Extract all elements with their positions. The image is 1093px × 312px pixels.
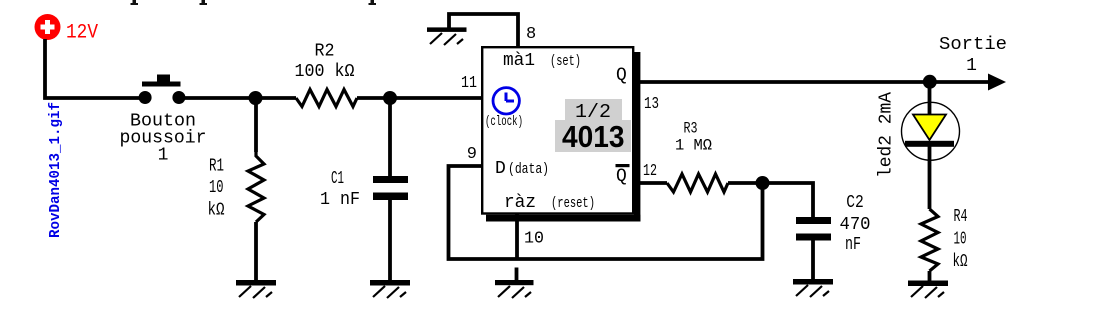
svg-text:Sortie: Sortie (939, 35, 1007, 55)
svg-text:ràz: ràz (504, 193, 536, 213)
cropped text descender 1 (131, 0, 139, 5)
svg-text:12V: 12V (66, 22, 98, 45)
svg-text:C2: C2 (846, 193, 864, 213)
svg-text:led2 2mA: led2 2mA (877, 92, 897, 178)
label C1 1 nF (320, 169, 360, 210)
svg-text:R2: R2 (315, 42, 335, 62)
svg-text:kΩ: kΩ (953, 252, 968, 272)
svg-text:13: 13 (644, 95, 659, 114)
svg-text:1 nF: 1 nF (320, 190, 360, 210)
svg-text:(reset): (reset) (551, 195, 595, 212)
svg-text:1: 1 (966, 56, 977, 76)
ground (pin 10) (495, 268, 534, 299)
svg-text:10: 10 (954, 230, 967, 250)
svg-text:9: 9 (467, 145, 477, 164)
wire Q output (pin 13) (634, 80, 990, 84)
wire pin 12 to R3 (634, 181, 667, 185)
ground (below C1) (370, 280, 410, 298)
ground (below C2) (793, 279, 833, 297)
wire node C to C2 (763, 183, 814, 217)
wire pin 9 (D input) (449, 166, 763, 259)
label R1 10 kΩ (208, 157, 225, 221)
+12V supply symbol (35, 14, 61, 40)
svg-text:100 kΩ: 100 kΩ (295, 62, 355, 82)
IC U1 4013 box (482, 47, 640, 221)
label R4 10 kΩ (953, 207, 968, 272)
label C2 470 nF (840, 193, 871, 255)
svg-text:D: D (495, 159, 506, 179)
label Bouton poussoir 1 (120, 112, 207, 166)
svg-text:470: 470 (840, 215, 871, 235)
svg-text:10: 10 (524, 230, 544, 249)
svg-text:12: 12 (643, 162, 657, 181)
wire ground to pin 8 (449, 14, 518, 48)
wire R2 to node B (357, 96, 390, 100)
output arrowhead (988, 74, 1006, 91)
svg-text:(data): (data) (508, 161, 549, 178)
gray highlight 4013 (555, 120, 631, 152)
gray highlight 1/2 (565, 99, 622, 120)
svg-text:(clock): (clock) (485, 114, 523, 130)
wire pin 10 to ground (515, 214, 519, 261)
svg-text:RovDan4013_1.gif: RovDan4013_1.gif (48, 102, 64, 238)
svg-text:10: 10 (209, 178, 224, 198)
ground (below R1) (236, 280, 276, 298)
svg-text:Q: Q (616, 167, 627, 187)
ground (pin 8 set, top) (427, 27, 467, 45)
svg-text:R3: R3 (684, 120, 698, 138)
node C junction (756, 176, 770, 190)
LED led2 (902, 82, 960, 209)
wire R3 to node C (728, 181, 757, 185)
node B junction (383, 91, 397, 105)
cropped text descender 2 (200, 0, 208, 5)
node A junction (249, 91, 263, 105)
svg-text:4013: 4013 (562, 119, 625, 154)
svg-text:1 MΩ: 1 MΩ (675, 137, 712, 155)
clock icon (493, 88, 519, 114)
wire button to node A (183, 96, 256, 100)
svg-text:1: 1 (158, 146, 169, 166)
svg-text:11: 11 (461, 74, 477, 93)
svg-text:C1: C1 (331, 169, 344, 189)
svg-text:mà1: mà1 (503, 51, 535, 71)
svg-text:Q: Q (616, 66, 627, 86)
svg-text:R4: R4 (954, 207, 968, 227)
svg-text:(set): (set) (550, 53, 581, 70)
svg-text:R1: R1 (209, 157, 224, 177)
svg-text:kΩ: kΩ (208, 201, 225, 221)
resistor R1 (248, 98, 264, 281)
resistor R4 (921, 209, 938, 271)
pushbutton (Bouton poussoir 1) (139, 75, 186, 105)
wire R4 to ground (928, 271, 932, 281)
ground (below R4) (908, 281, 948, 299)
capacitor C1 (373, 98, 408, 281)
svg-text:nF: nF (845, 235, 861, 255)
wire +12V down and right to button (45, 39, 141, 98)
wire node B to pin 11 (390, 96, 481, 100)
label R3 1 MΩ (675, 120, 712, 155)
cropped text descender 3 (369, 0, 377, 5)
svg-text:8: 8 (526, 25, 536, 44)
resistor R2 (296, 90, 357, 107)
wire node A to R2 (256, 96, 296, 100)
label Sortie 1 (939, 35, 1007, 76)
resistor R3 (667, 174, 728, 192)
label R2 100 kΩ (295, 42, 355, 83)
node D junction on Q wire (923, 75, 937, 89)
capacitor C2 (796, 217, 831, 281)
